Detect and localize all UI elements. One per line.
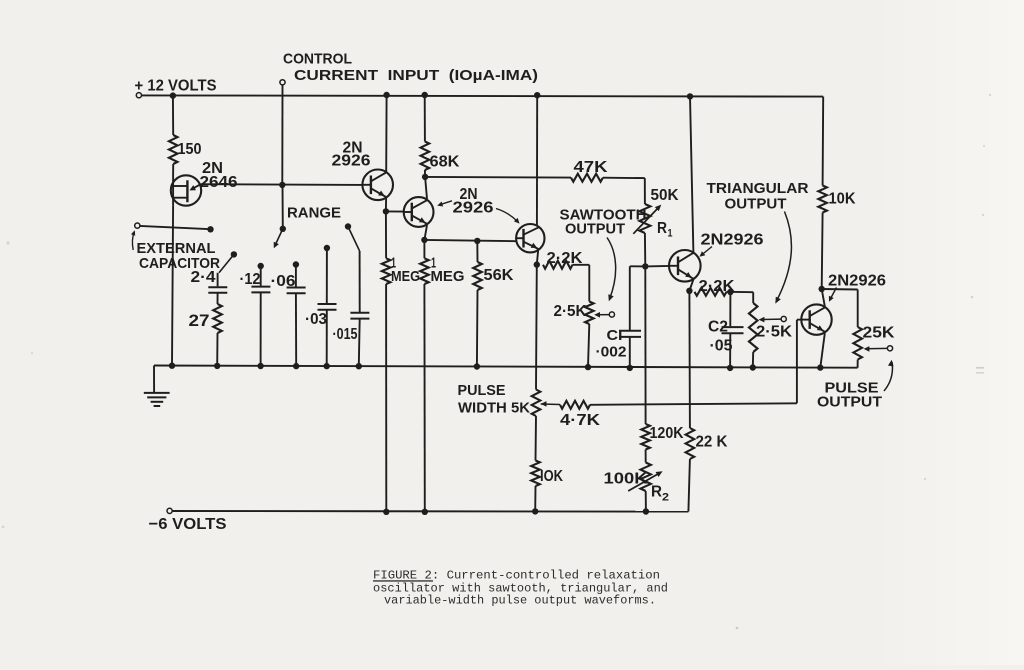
svg-text:·015: ·015: [333, 326, 358, 343]
wire: S1 pole up to emitter node: [282, 185, 284, 229]
resistor 1 MEG (second): [423, 240, 425, 258]
pulse output wiper terminal: [887, 346, 892, 351]
svg-text:22 K: 22 K: [696, 434, 728, 451]
svg-text:47K: 47K: [574, 159, 609, 176]
svg-text:2926: 2926: [453, 200, 494, 217]
svg-text:OUTPUT: OUTPUT: [817, 394, 882, 411]
switch S1 wiper arrow: [275, 229, 283, 246]
capacitor .03: [324, 245, 330, 251]
svg-text:IOK: IOK: [540, 468, 563, 485]
node: +12V/150 junction: [170, 92, 176, 98]
svg-text:50K: 50K: [651, 187, 679, 204]
node: 10K at -6V: [532, 508, 538, 514]
svg-text:−6 VOLTS: −6 VOLTS: [149, 516, 227, 533]
svg-text:25K: 25K: [863, 325, 895, 342]
external capacitor terminal: [135, 223, 140, 228]
triangular wiper terminal: [781, 316, 786, 321]
wire: Q4 emitter down to 22K: [688, 291, 691, 428]
sawtooth output terminal + wiper: [609, 312, 614, 317]
capacitor .015: [359, 251, 361, 312]
switch S2 lever: [348, 227, 360, 252]
svg-text:+ 12 VOLTS: + 12 VOLTS: [135, 77, 217, 94]
svg-text:MEG: MEG: [391, 268, 420, 285]
svg-text:OUTPUT: OUTPUT: [725, 196, 787, 213]
svg-text:150: 150: [178, 141, 202, 158]
node: .015 at ground: [356, 363, 362, 369]
wire: junction to C1: [630, 265, 646, 267]
svg-text:·06: ·06: [271, 273, 296, 290]
wire: UJT base1 down to ground rail: [172, 206, 173, 366]
node: Q1 emitter junction: [383, 208, 389, 214]
potentiometer PULSE WIDTH 5K: [532, 390, 541, 417]
wire: Q3 emitter down: [537, 251, 538, 265]
arrow from label to Q2: [440, 201, 453, 205]
potentiometer 2.5K (triangular): [752, 292, 754, 303]
wire: Q2 collector up: [425, 177, 427, 199]
+12V supply terminal: [136, 93, 141, 98]
svg-text:TRIANGULAR: TRIANGULAR: [707, 180, 809, 197]
svg-text:R: R: [651, 484, 662, 501]
capacitor .06: [293, 261, 299, 267]
wire: Q3 emitter down to pulse width pot: [535, 265, 538, 390]
svg-text:2646: 2646: [200, 174, 238, 191]
svg-text:27: 27: [189, 311, 210, 330]
node: C1 at ground: [627, 365, 633, 371]
transistor Q3 2N2926: [516, 224, 544, 252]
transistor Q4 2N2926: [669, 250, 701, 282]
transistor Q5 2N2926: [801, 304, 831, 334]
unijunction transistor 2N2646: [171, 175, 201, 205]
transistor Q1 2N2926: [362, 170, 393, 201]
rheostat R1 50K: [644, 178, 646, 204]
node: 1 MEG at -6V: [383, 509, 389, 515]
svg-text:2N2926: 2N2926: [828, 273, 886, 290]
capacitor C2 .05: [729, 292, 731, 326]
range switch S2 pole: [345, 223, 351, 229]
node: .12 at ground: [257, 363, 263, 369]
svg-text:56K: 56K: [484, 267, 514, 284]
arrow from triangular label to wiper: [777, 212, 792, 302]
-6V supply terminal: [167, 508, 172, 513]
svg-text:2926: 2926: [332, 153, 371, 170]
wire: Q5 emitter to ground: [820, 333, 825, 367]
arrow to external capacitor terminal: [132, 232, 134, 251]
wire + resistor 47K: [425, 176, 571, 179]
potentiometer 2.5K (sawtooth): [588, 265, 590, 302]
node: C2 junction: [727, 289, 733, 295]
svg-text:100K: 100K: [604, 471, 649, 488]
wire: Q4 emitter down: [689, 279, 693, 290]
wire: 4.7K to Q5 base feedback: [590, 403, 797, 405]
wire: control input down to emitter node: [281, 85, 283, 185]
svg-text:MEG: MEG: [431, 268, 465, 285]
wire: Q4 collector to rail: [690, 96, 693, 252]
5K wiper arrow + resistor 4.7K: [541, 401, 547, 407]
svg-text:CURRENT INPUT (IOµA-IMA): CURRENT INPUT (IOµA-IMA): [294, 67, 538, 84]
wire: Q2 emitter to Q3 base: [424, 240, 516, 241]
svg-text:·12: ·12: [240, 271, 261, 288]
svg-text:2·4: 2·4: [191, 269, 216, 286]
svg-text:2·5K: 2·5K: [756, 324, 792, 341]
svg-text:2·5K: 2·5K: [554, 303, 587, 320]
resistor 56K: [476, 241, 478, 262]
svg-text:2: 2: [662, 492, 669, 504]
node: Q3 collector at rail: [534, 92, 540, 98]
svg-text:·05: ·05: [710, 338, 733, 355]
node: Q3 emitter junction: [534, 261, 540, 267]
capacitor 2.4 with series resistor 27: [231, 251, 237, 257]
ground rail wire: [154, 366, 858, 368]
node: 27 ohm at ground: [214, 363, 220, 369]
wire: external capacitor stub: [140, 226, 211, 229]
wire: Q1 emitter to Q2 base: [386, 210, 404, 212]
transistor Q2 2N2926: [404, 197, 434, 227]
wire: Q2 emitter down: [424, 225, 427, 240]
resistor 1 MEG (first): [385, 211, 387, 258]
arrow from label to Q5: [830, 288, 837, 300]
node: Q4 collector at rail: [687, 93, 693, 99]
arrow from sawtooth label to pot wiper: [607, 238, 616, 300]
node: pot 2.5K at ground: [585, 364, 591, 370]
svg-text:RANGE: RANGE: [287, 205, 341, 222]
node: Q4 base junction: [642, 263, 648, 269]
wire: Q5 base feedback: [797, 319, 802, 321]
resistor 150: [172, 96, 174, 135]
svg-text:1: 1: [668, 228, 673, 240]
node: Q5 emitter at ground: [817, 364, 823, 370]
node: pot 2.5K-2 at ground: [750, 364, 756, 370]
svg-text:4·7K: 4·7K: [560, 412, 601, 429]
svg-text:120K: 120K: [650, 425, 684, 442]
svg-text:PULSE: PULSE: [458, 382, 506, 399]
range switch S1 pole: [280, 226, 286, 232]
wire: junction to Q4 base: [645, 265, 669, 268]
node: control input junction: [279, 182, 285, 188]
svg-text:·002: ·002: [596, 344, 627, 361]
node: .03 at ground: [324, 363, 330, 369]
node: Q1 collector at rail: [383, 92, 389, 98]
wire: Q3 collector to rail: [536, 95, 538, 226]
wire: Q5 collector up: [822, 289, 825, 306]
svg-text:OUTPUT: OUTPUT: [565, 221, 625, 238]
svg-text:variable-width pulse output wa: variable-width pulse output waveforms.: [384, 593, 656, 607]
scan specks: [989, 94, 991, 96]
node: Q4 emitter junction: [686, 288, 692, 294]
-6V rail wire: [172, 510, 688, 513]
resistor 68K: [424, 95, 426, 142]
svg-text:68K: 68K: [430, 154, 460, 171]
node: 1 MEG 2 at -6V: [422, 509, 428, 515]
svg-text:R: R: [657, 220, 667, 237]
node: 56K at ground: [474, 363, 480, 369]
svg-text:2N2926: 2N2926: [701, 231, 764, 248]
node: Q5 collector junction: [819, 286, 825, 292]
resistor 22K: [686, 428, 695, 459]
node: 68K top at rail: [422, 92, 428, 98]
ground symbol: [153, 366, 155, 393]
node: 56K junction: [474, 238, 480, 244]
node: UJT base1 at ground: [169, 363, 175, 369]
top +12V rail wire: [141, 95, 823, 96]
svg-text:CONTROL: CONTROL: [283, 51, 352, 68]
node: .06 at ground: [293, 363, 299, 369]
control current input terminal: [280, 80, 285, 85]
resistor 10K (collector load): [822, 97, 825, 186]
svg-text:WIDTH 5K: WIDTH 5K: [458, 400, 530, 417]
wire: Q1 collector to rail: [385, 95, 387, 172]
capacitor C1 .002: [629, 266, 631, 330]
resistor 25K (pulse output): [822, 288, 858, 291]
node: 68K / Q2 collector / 47K junction: [422, 174, 428, 180]
svg-text:10K: 10K: [829, 191, 856, 208]
arrow from pulse output label to wiper: [884, 362, 892, 391]
resistor 2.2K (Q3 emitter): [543, 261, 573, 269]
svg-text:·03: ·03: [305, 311, 327, 328]
wire: 1 MEG 2 to -6V rail: [423, 284, 425, 512]
wire: Q1 emitter down: [385, 198, 387, 211]
arrow from label to Q4: [702, 247, 713, 256]
rheostat R2 100K: [641, 463, 651, 492]
wire: Q4 base node down to 120K: [644, 266, 646, 424]
node: C2 at ground: [727, 365, 733, 371]
node: R2 at -6V: [643, 508, 649, 514]
resistor 27: [213, 304, 222, 333]
resistor 2.2K (Q4 emitter): [695, 288, 727, 296]
resistor 10K (lower): [531, 461, 540, 487]
capacitor .12: [258, 263, 264, 269]
svg-text:CI: CI: [607, 327, 623, 344]
arrow from label to Q3: [496, 209, 518, 222]
resistor 120K: [641, 424, 650, 450]
wire: 1 MEG to -6V rail: [385, 284, 387, 512]
node: Q2 emitter junction: [421, 237, 427, 243]
svg-text:C2: C2: [708, 319, 728, 336]
wire: UJT emitter to Q1 base: [201, 183, 363, 186]
